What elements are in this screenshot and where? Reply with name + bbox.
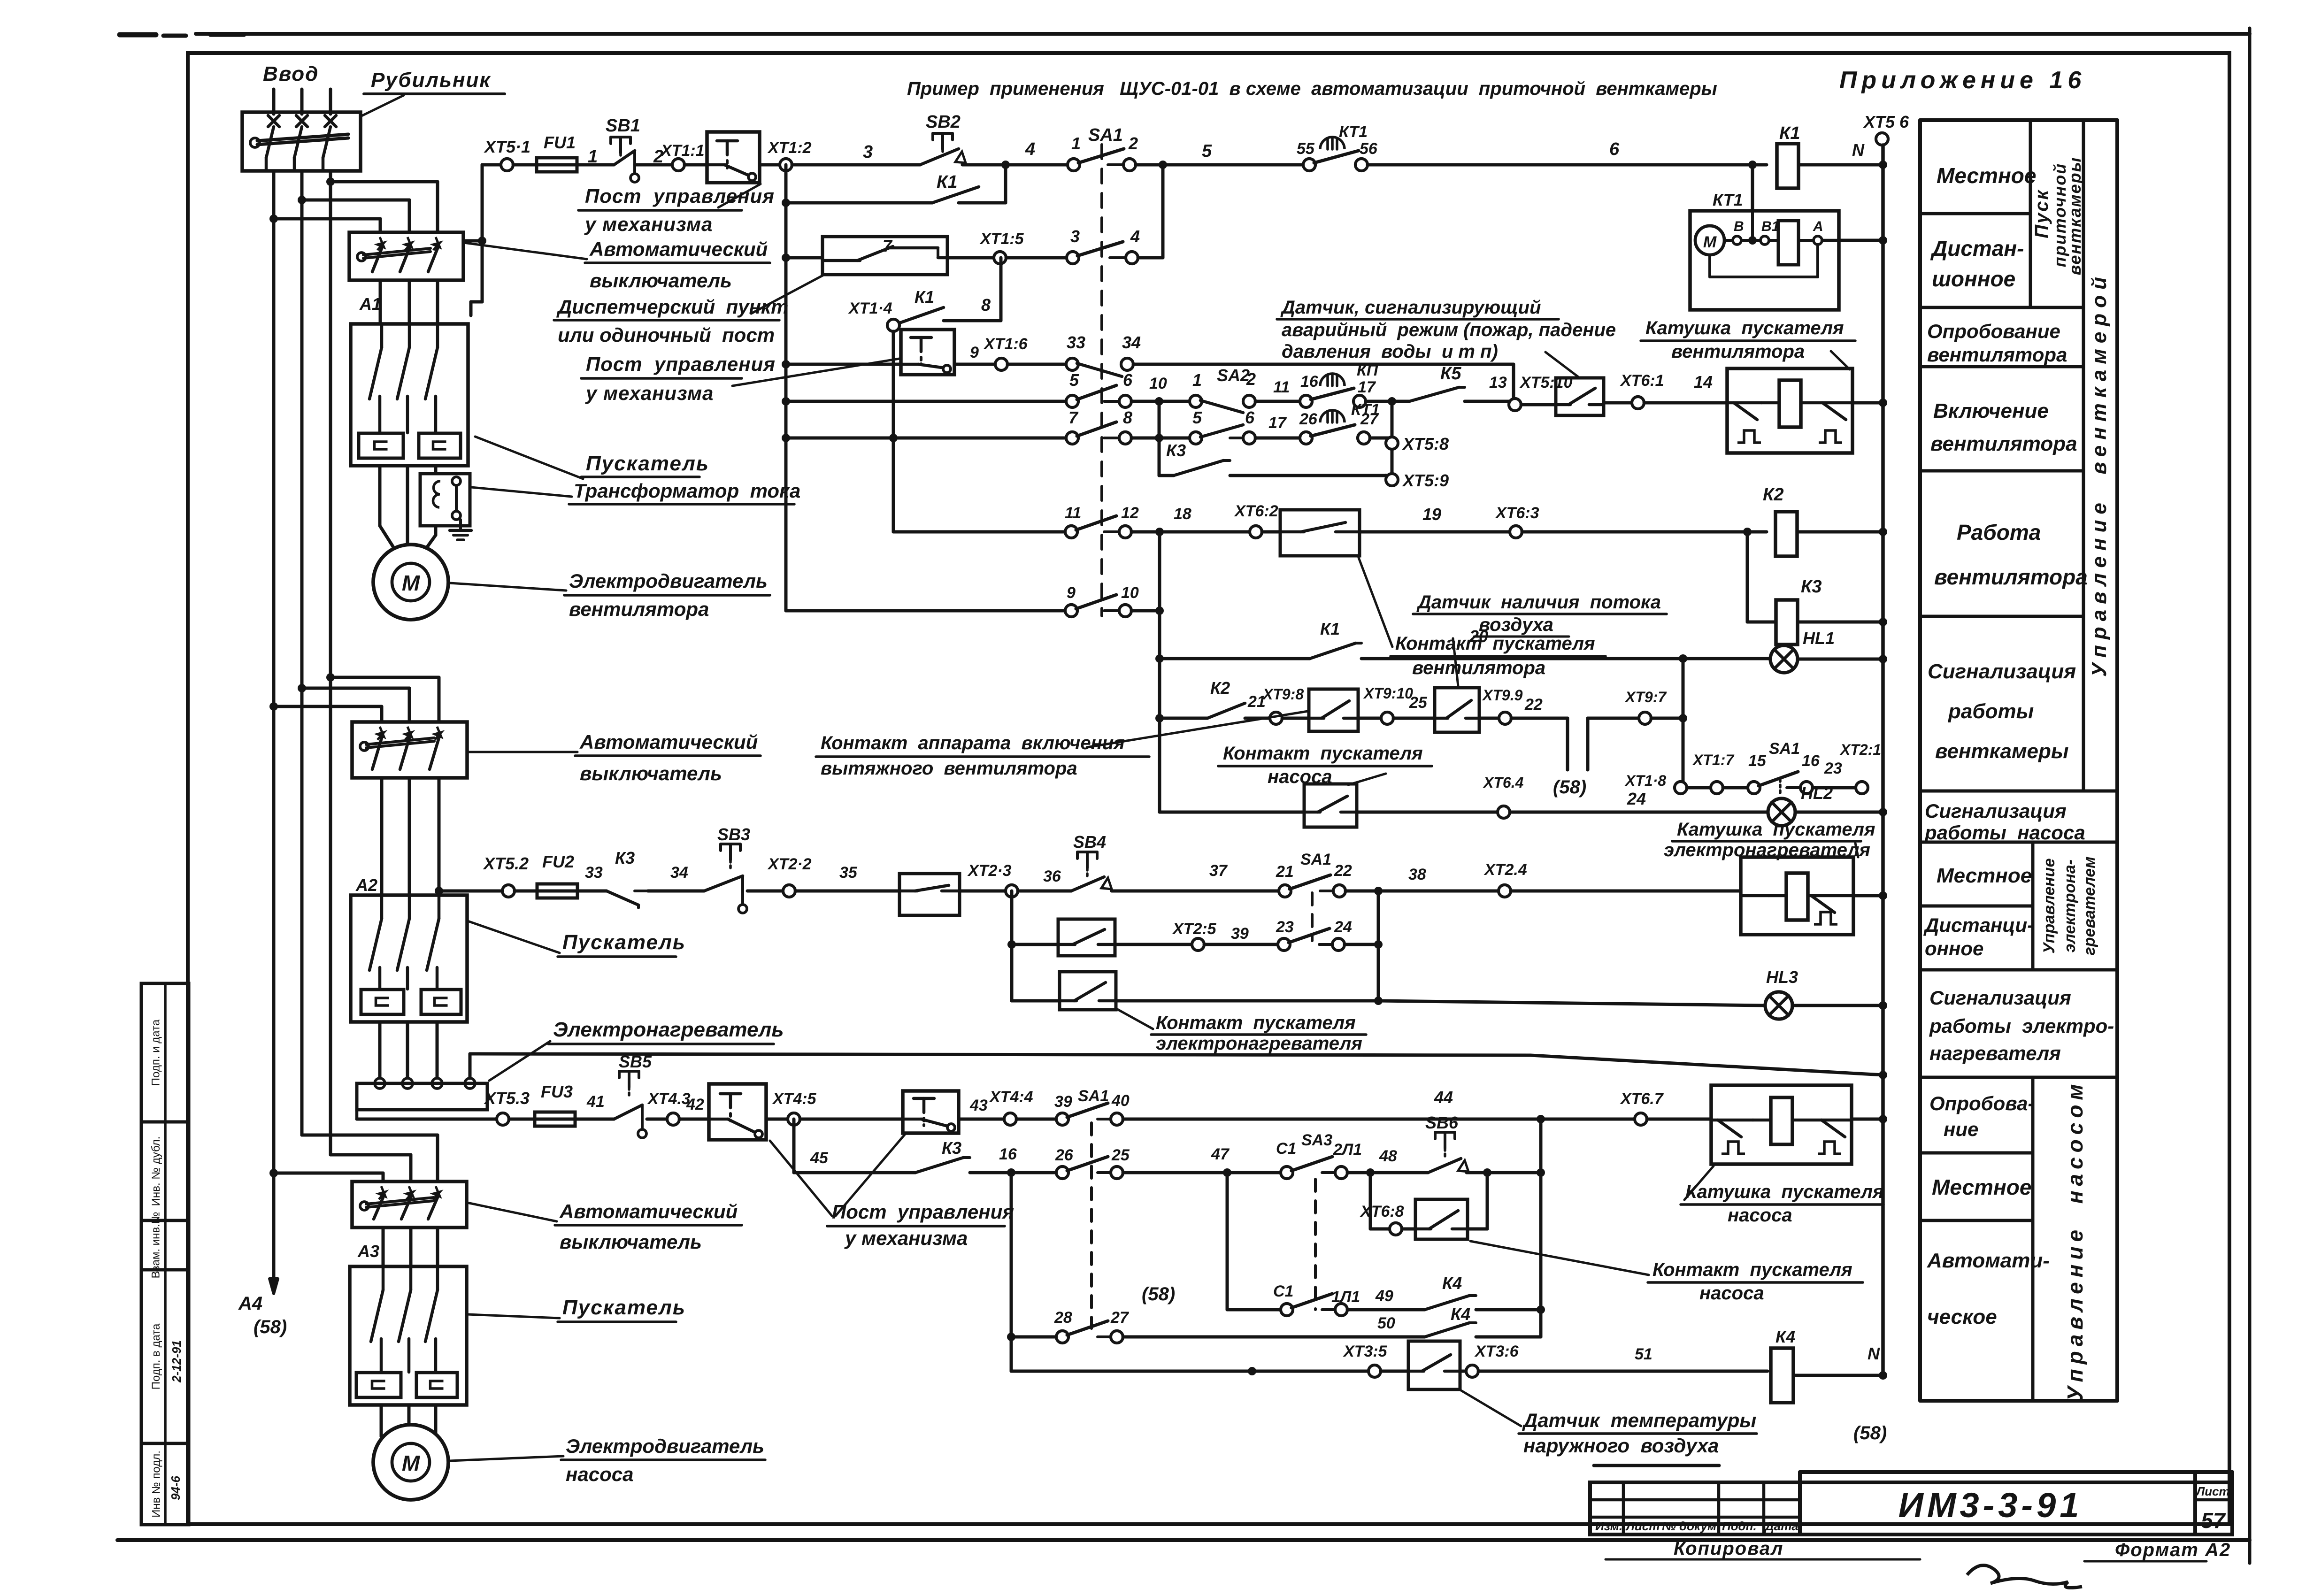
node Ввод label bbox=[263, 62, 319, 85]
svg-text:К2: К2 bbox=[1210, 678, 1230, 698]
svg-text:вентилятора: вентилятора bbox=[1412, 658, 1545, 678]
switch SA3 contact C1-2M1 bbox=[1276, 1131, 1362, 1179]
svg-text:Изм.: Изм. bbox=[1595, 1519, 1622, 1533]
contact K1 (row11) bbox=[1310, 619, 1361, 659]
svg-text:вентилятора: вентилятора bbox=[1671, 341, 1805, 362]
relay coil K4 bbox=[1771, 1327, 1795, 1403]
bus pump right bbox=[1537, 1119, 1545, 1337]
svg-text:К2: К2 bbox=[1763, 485, 1784, 505]
wire 3a bbox=[786, 256, 822, 260]
svg-text:Включение: Включение bbox=[1933, 399, 2049, 422]
svg-text:47: 47 bbox=[1211, 1145, 1230, 1163]
label Датчик наличия потока bbox=[1413, 592, 1667, 686]
svg-text:55: 55 bbox=[1297, 140, 1315, 158]
svg-text:4: 4 bbox=[1025, 139, 1035, 159]
svg-text:34: 34 bbox=[1122, 333, 1141, 352]
svg-text:16: 16 bbox=[1300, 373, 1319, 391]
lamp HL2 bbox=[1768, 783, 1833, 826]
svg-text:XT9:10: XT9:10 bbox=[1363, 685, 1413, 702]
svg-text:Приложение 16: Приложение 16 bbox=[1839, 67, 2086, 94]
cell Сигнализация работы венткамеры bbox=[1928, 660, 2076, 763]
wire 21a bbox=[1011, 1335, 1056, 1339]
cell Автоматическое bbox=[1927, 1249, 2050, 1328]
cell Опробование (насос) bbox=[1929, 1092, 2034, 1140]
label Электродвигатель насоса bbox=[561, 1435, 765, 1485]
contact K4 (row20) bbox=[1425, 1274, 1476, 1310]
wire 6c bbox=[1255, 378, 1300, 401]
cell Управление насосом bbox=[2063, 1080, 2087, 1401]
wire 11c bbox=[1798, 655, 1887, 663]
svg-text:КП: КП bbox=[1357, 361, 1379, 379]
svg-text:К3: К3 bbox=[615, 848, 635, 867]
terminal XT5:1 bbox=[484, 137, 530, 171]
svg-text:Пуск: Пуск bbox=[2031, 189, 2052, 238]
wire 18g bbox=[959, 1097, 1004, 1119]
svg-text:19: 19 bbox=[1422, 505, 1441, 524]
svg-text:К1: К1 bbox=[1320, 619, 1340, 638]
terminal XT9:7 bbox=[1624, 689, 1667, 724]
svg-text:5: 5 bbox=[1202, 141, 1212, 161]
wire 22a bbox=[1011, 1367, 1368, 1375]
svg-text:Катушка пускателя: Катушка пускателя bbox=[1645, 318, 1844, 338]
svg-text:М: М bbox=[1703, 233, 1717, 251]
svg-text:XT2·2: XT2·2 bbox=[767, 855, 812, 873]
wire (58) stub down bbox=[1566, 718, 1569, 770]
control post box T2 bbox=[901, 330, 954, 375]
leader 10 bbox=[489, 1041, 550, 1081]
svg-text:XT9.9: XT9.9 bbox=[1482, 687, 1523, 704]
wire 18d bbox=[679, 1096, 709, 1119]
document stamp column bbox=[141, 983, 189, 1525]
leader 3 bbox=[751, 275, 823, 314]
title block bbox=[1590, 1466, 2232, 1535]
contact 26-25 (SA1) bbox=[1055, 1146, 1130, 1179]
switch SA1 dashed link bbox=[1100, 145, 1103, 616]
svg-text:SB5: SB5 bbox=[619, 1052, 652, 1071]
svg-text:Сигнализация: Сигнализация bbox=[1928, 660, 2076, 683]
svg-text:50: 50 bbox=[1377, 1314, 1395, 1332]
wire 3c bbox=[1006, 256, 1067, 260]
wire tap A2 pole1 bbox=[269, 702, 382, 722]
svg-text:57: 57 bbox=[2201, 1508, 2226, 1533]
wire 13b bbox=[1723, 786, 1748, 790]
wire A3-KM3 pole2 bbox=[409, 1228, 413, 1266]
terminal XT4:5 bbox=[772, 1090, 817, 1125]
svg-text:XT9:7: XT9:7 bbox=[1624, 689, 1667, 706]
svg-text:44: 44 bbox=[1434, 1088, 1453, 1107]
motor M2 (насос) bbox=[373, 1425, 448, 1500]
svg-text:39: 39 bbox=[1054, 1093, 1072, 1111]
svg-text:Дистанци-: Дистанци- bbox=[1923, 914, 2034, 936]
svg-text:3: 3 bbox=[863, 142, 873, 162]
svg-text:22: 22 bbox=[1524, 696, 1543, 714]
svg-text:24: 24 bbox=[1334, 918, 1352, 936]
wire 18i bbox=[1123, 1088, 1635, 1123]
wire K1 bypass bbox=[786, 165, 1006, 203]
svg-text:34: 34 bbox=[670, 864, 688, 882]
label Контакт пускателя вентилятора bbox=[1359, 558, 1606, 678]
wire 9a bbox=[893, 530, 1065, 534]
contact 23-24 (SA1) bbox=[1276, 918, 1352, 951]
cell Местное (вентилятор) bbox=[1937, 163, 2036, 188]
svg-text:HL2: HL2 bbox=[1801, 783, 1833, 803]
contact K3 (row19) bbox=[915, 1138, 970, 1173]
svg-text:ние: ние bbox=[1944, 1118, 1978, 1140]
sheet label bbox=[2195, 1484, 2229, 1533]
title block headers bbox=[1595, 1519, 1798, 1533]
svg-text:SB6: SB6 bbox=[1425, 1113, 1459, 1132]
leader 12 bbox=[467, 1314, 560, 1318]
document number ИМ3-3-91 bbox=[1898, 1486, 2083, 1525]
wire A3-KM3 pole3 bbox=[436, 1228, 439, 1266]
svg-text:у механизма: у механизма bbox=[844, 1227, 968, 1249]
time contact KT1 26-27 bbox=[1299, 401, 1380, 444]
svg-text:11: 11 bbox=[1273, 378, 1290, 396]
terminal XT5:9 bbox=[1386, 471, 1449, 490]
wire tap A1 pole3 bbox=[326, 177, 438, 232]
pushbutton SB6 bbox=[1425, 1113, 1468, 1173]
wire 12a bbox=[1160, 717, 1207, 720]
contact K5 bbox=[1409, 364, 1465, 401]
switch SA3 contact C1-1M1 bbox=[1273, 1282, 1360, 1316]
control post box T3 bbox=[709, 1084, 766, 1140]
electric heater box bbox=[357, 1083, 487, 1110]
svg-text:SB3: SB3 bbox=[717, 825, 750, 844]
label Датчик сигнализирующий bbox=[1277, 297, 1616, 362]
wire 8b bbox=[1230, 475, 1386, 476]
svg-text:41: 41 bbox=[586, 1093, 605, 1111]
terminal XT9:8 bbox=[1262, 686, 1304, 724]
svg-text:насоса: насоса bbox=[566, 1463, 633, 1485]
wire 1i bbox=[1368, 139, 1767, 169]
terminal XT6:4 bbox=[1483, 774, 1524, 818]
terminal XT6:7 bbox=[1620, 1090, 1664, 1125]
terminal XT1:4 bbox=[848, 299, 899, 331]
svg-text:14: 14 bbox=[1694, 372, 1713, 391]
svg-text:XT4.3: XT4.3 bbox=[647, 1090, 691, 1108]
svg-text:21: 21 bbox=[1276, 863, 1294, 881]
wire 5d bbox=[1133, 364, 1514, 397]
label A4 bbox=[238, 1293, 262, 1314]
wire 12e bbox=[1393, 694, 1435, 718]
bus HL down bbox=[1679, 659, 1687, 788]
svg-text:16: 16 bbox=[1802, 752, 1820, 770]
svg-text:Трансформатор тока: Трансформатор тока bbox=[574, 480, 800, 502]
wire 18c bbox=[647, 1118, 667, 1121]
svg-text:XT5:8: XT5:8 bbox=[1402, 434, 1449, 453]
svg-text:Местное: Местное bbox=[1932, 1175, 2031, 1199]
svg-text:Местное: Местное bbox=[1937, 163, 2036, 188]
svg-text:13: 13 bbox=[1489, 374, 1507, 391]
svg-text:Катушка пускателя: Катушка пускателя bbox=[1677, 819, 1875, 840]
cell Дистанционное (нагреватель) bbox=[1923, 914, 2034, 959]
contact K1 (row4) bbox=[899, 287, 944, 323]
switch SA1 contact 39-40 bbox=[1054, 1087, 1130, 1125]
svg-text:нагревателя: нагревателя bbox=[1929, 1042, 2061, 1064]
svg-text:№ докум.: № докум. bbox=[1662, 1519, 1720, 1533]
switch SA1 dashed link 3 bbox=[1090, 1123, 1093, 1328]
wire 18f bbox=[800, 1118, 903, 1121]
wire 15j bbox=[1345, 866, 1499, 895]
torn page edge dashes top left bbox=[120, 35, 244, 36]
cell Пуск приточной венткамеры bbox=[2031, 157, 2084, 276]
lamp HL3 bbox=[1765, 967, 1798, 1019]
wire tap A2 pole2 bbox=[298, 684, 409, 722]
svg-text:КТ1: КТ1 bbox=[1713, 190, 1743, 209]
pushbutton SB2 bbox=[920, 112, 966, 165]
heater aux contact box (row16) bbox=[1058, 919, 1115, 956]
cell Местное (насос) bbox=[1932, 1175, 2031, 1199]
label (58) mid bbox=[1553, 777, 1586, 798]
wire A1-KM1 pole1 bbox=[379, 280, 382, 324]
pushbutton SB4 bbox=[1071, 832, 1112, 891]
svg-text:1: 1 bbox=[588, 147, 598, 167]
wire 8a bbox=[1159, 401, 1174, 476]
label Электронагреватель bbox=[548, 1018, 784, 1044]
svg-text:Пускатель: Пускатель bbox=[562, 1296, 686, 1319]
label Пускатель 2 bbox=[558, 931, 686, 957]
svg-text:XT4:4: XT4:4 bbox=[989, 1088, 1033, 1106]
svg-text:К1: К1 bbox=[937, 172, 958, 192]
wire 9d bbox=[1360, 505, 1510, 532]
svg-text:К3: К3 bbox=[1801, 577, 1822, 597]
svg-text:А2: А2 bbox=[355, 875, 377, 895]
svg-text:51: 51 bbox=[1635, 1345, 1652, 1363]
svg-text:SA3: SA3 bbox=[1301, 1131, 1332, 1149]
wire 9f bbox=[1797, 528, 1887, 536]
svg-text:вытяжного вентилятора: вытяжного вентилятора bbox=[821, 758, 1077, 779]
svg-text:XT5.2: XT5.2 bbox=[483, 854, 529, 873]
svg-text:XT3:6: XT3:6 bbox=[1474, 1343, 1519, 1360]
flow sensor contact box (row12) bbox=[1435, 688, 1479, 732]
svg-text:Контакт пускателя: Контакт пускателя bbox=[1156, 1013, 1356, 1033]
svg-text:23: 23 bbox=[1276, 918, 1294, 936]
wire 17c bbox=[1378, 1001, 1765, 1005]
svg-text:Ввод: Ввод bbox=[263, 62, 319, 85]
terminal XT6:3 bbox=[1495, 504, 1539, 538]
wire 18e bbox=[766, 1118, 788, 1121]
label Катушка пускателя насоса bbox=[1681, 1166, 1884, 1226]
cell Работа вентилятора bbox=[1934, 520, 2088, 589]
contact 9-10 (SA1) bbox=[1065, 584, 1139, 617]
svg-text:(58): (58) bbox=[1553, 777, 1586, 798]
terminal XT5:8 bbox=[1386, 434, 1449, 453]
svg-text:Подп. в дата: Подп. в дата bbox=[150, 1323, 162, 1389]
wire 19f bbox=[1402, 1228, 1415, 1231]
svg-text:15: 15 bbox=[1748, 752, 1767, 770]
annex label bbox=[1839, 67, 2086, 94]
svg-text:Инв. № дубл.: Инв. № дубл. bbox=[150, 1136, 162, 1206]
svg-text:К1: К1 bbox=[915, 287, 934, 307]
terminal XT1:6 bbox=[983, 335, 1028, 370]
svg-text:XT2·3: XT2·3 bbox=[967, 862, 1012, 880]
wire 15d bbox=[648, 864, 704, 891]
svg-text:Пост управления: Пост управления bbox=[586, 353, 776, 375]
wire KM2 out2 bbox=[406, 1022, 409, 1077]
svg-text:Лист: Лист bbox=[1625, 1519, 1660, 1533]
svg-text:Формат А2: Формат А2 bbox=[2115, 1540, 2231, 1560]
svg-text:25: 25 bbox=[1111, 1146, 1130, 1164]
format label bbox=[2084, 1540, 2231, 1561]
svg-text:выключатель: выключатель bbox=[590, 269, 732, 292]
svg-text:39: 39 bbox=[1231, 925, 1249, 943]
svg-text:М: М bbox=[402, 1451, 421, 1475]
wire 18k bbox=[1852, 1115, 1887, 1123]
motor M1 (вентилятор) bbox=[373, 545, 448, 620]
feeder A4 to sheet 58 bbox=[269, 1173, 278, 1294]
svg-text:или одиночный пост: или одиночный пост bbox=[558, 324, 775, 346]
svg-text:4: 4 bbox=[1130, 227, 1140, 246]
svg-text:В: В bbox=[1734, 219, 1744, 234]
wire 12g bbox=[1511, 696, 1568, 718]
svg-text:FU1: FU1 bbox=[544, 133, 576, 152]
wire tap A3 pole3 bbox=[302, 1135, 438, 1182]
wire 3b bbox=[947, 256, 994, 260]
wire 22e bbox=[1793, 1344, 1887, 1380]
sensor contact box (avar) bbox=[1556, 378, 1604, 415]
terminal XT2:5 bbox=[1172, 920, 1217, 951]
wire 17b bbox=[1116, 999, 1378, 1003]
pushbutton SB1 bbox=[606, 116, 640, 182]
contact 11-12 (SA1) bbox=[1065, 504, 1139, 538]
drawing outer border right bbox=[2248, 28, 2252, 1563]
svg-text:Датчик температуры: Датчик температуры bbox=[1522, 1409, 1756, 1431]
contact K2 (row12) bbox=[1207, 678, 1245, 718]
svg-text:Опробование: Опробование bbox=[1927, 320, 2060, 342]
svg-text:Контакт пускателя: Контакт пускателя bbox=[1395, 633, 1595, 654]
svg-text:1Л1: 1Л1 bbox=[1331, 1288, 1360, 1306]
wire 6d bbox=[1366, 397, 1409, 406]
contact 15-16 (SA1) bbox=[1748, 740, 1820, 795]
svg-text:43: 43 bbox=[969, 1097, 988, 1114]
svg-text:насоса: насоса bbox=[1728, 1205, 1792, 1226]
svg-text:FU2: FU2 bbox=[542, 852, 574, 871]
svg-text:2-12-91: 2-12-91 bbox=[169, 1340, 184, 1383]
svg-text:XT5:9: XT5:9 bbox=[1402, 471, 1449, 490]
svg-text:49: 49 bbox=[1375, 1287, 1393, 1305]
svg-text:12: 12 bbox=[1121, 504, 1139, 522]
label Пускатель 3 bbox=[558, 1296, 686, 1322]
wire 16c bbox=[1204, 925, 1278, 944]
contact 7-8 (SA1) bbox=[1066, 408, 1132, 444]
svg-text:Катушка пускателя: Катушка пускателя bbox=[1685, 1182, 1884, 1202]
svg-text:К3: К3 bbox=[1166, 441, 1186, 460]
svg-text:К5: К5 bbox=[1440, 364, 1461, 384]
label Трансформатор тока bbox=[569, 480, 800, 504]
wire 15e bbox=[747, 890, 783, 893]
drawing outer border top bbox=[196, 32, 2250, 36]
svg-text:SA1: SA1 bbox=[1769, 740, 1800, 758]
label Пост управления у механизма 3 bbox=[827, 1201, 1014, 1249]
contact K4 (row21) bbox=[1425, 1304, 1476, 1337]
svg-text:выключатель: выключатель bbox=[580, 762, 722, 784]
leader 5 bbox=[475, 437, 583, 479]
wire 19a bbox=[970, 1145, 1056, 1177]
svg-text:24: 24 bbox=[1627, 789, 1646, 808]
svg-text:Лист: Лист bbox=[2195, 1484, 2229, 1498]
wire 15i bbox=[1112, 862, 1279, 891]
svg-text:2Л1: 2Л1 bbox=[1333, 1141, 1362, 1159]
wire 13a bbox=[1687, 786, 1711, 790]
svg-text:SB1: SB1 bbox=[606, 116, 640, 136]
contact 5-6 (SA1) bbox=[1066, 370, 1133, 407]
wire KM2 out1 bbox=[378, 1022, 382, 1077]
svg-text:7: 7 bbox=[1068, 408, 1079, 427]
wire 14d bbox=[1795, 808, 1887, 816]
wire 6i bbox=[1852, 399, 1887, 407]
wire 16a bbox=[1012, 943, 1058, 946]
svg-text:насоса: насоса bbox=[1268, 767, 1332, 787]
wire 5c bbox=[1007, 363, 1066, 366]
wire (58) stub up bbox=[1588, 718, 1639, 770]
wire 1e bbox=[760, 163, 780, 167]
svg-text:Копировал: Копировал bbox=[1674, 1538, 1783, 1559]
wire 1g bbox=[962, 139, 1068, 169]
svg-text:Контакт пускателя: Контакт пускателя bbox=[1652, 1259, 1852, 1280]
svg-text:33: 33 bbox=[1067, 333, 1085, 352]
svg-text:(58): (58) bbox=[1853, 1423, 1887, 1443]
svg-text:7: 7 bbox=[883, 236, 893, 255]
phase wire L3 top bbox=[329, 89, 332, 114]
wire A2-KM2 pole3 bbox=[435, 778, 443, 895]
wire K3-N bbox=[1798, 618, 1887, 626]
svg-text:6: 6 bbox=[1245, 408, 1255, 427]
svg-text:22: 22 bbox=[1334, 862, 1352, 880]
label (58) left bbox=[254, 1317, 287, 1337]
svg-text:17: 17 bbox=[1358, 378, 1376, 396]
relay coil K2 bbox=[1763, 485, 1797, 556]
contact 33-34 (SA1) bbox=[1066, 333, 1141, 376]
leader 8 bbox=[468, 751, 577, 753]
label Автоматический выключатель 3 bbox=[555, 1200, 742, 1253]
wire 6f bbox=[1521, 403, 1556, 407]
switch SA2 contact 1-2 bbox=[1190, 366, 1256, 413]
bus pump left bbox=[1007, 1173, 1015, 1371]
wire 15f bbox=[795, 864, 899, 891]
wire 6b bbox=[1131, 375, 1190, 406]
svg-text:18: 18 bbox=[1174, 505, 1191, 523]
svg-text:Управление венткамерой: Управление венткамерой bbox=[2088, 271, 2111, 677]
pushbutton SB5 bbox=[614, 1052, 652, 1138]
wire 9e bbox=[1522, 528, 1767, 536]
wire 14b bbox=[1357, 811, 1498, 814]
svg-text:16: 16 bbox=[999, 1145, 1017, 1163]
leader 2 bbox=[464, 243, 587, 259]
signature bbox=[1967, 1565, 2082, 1588]
label Рубильник bbox=[364, 69, 505, 94]
temperature sensor contact box bbox=[1408, 1341, 1460, 1389]
svg-text:HL3: HL3 bbox=[1766, 967, 1798, 987]
wire KM1-M1 pole1 bbox=[380, 466, 395, 550]
wire 45 link bbox=[794, 1119, 915, 1173]
control post box T1 bbox=[707, 132, 760, 183]
svg-text:С1: С1 bbox=[1273, 1282, 1293, 1300]
bus N bbox=[1881, 145, 1885, 1377]
terminal XT5:6 bbox=[1863, 112, 1909, 145]
leader 7 bbox=[450, 583, 566, 591]
fan aux contact box (row9) bbox=[1280, 510, 1360, 556]
svg-text:SB4: SB4 bbox=[1073, 832, 1106, 852]
svg-text:вентилятора: вентилятора bbox=[1927, 344, 2067, 366]
leader post3 a bbox=[770, 1141, 832, 1216]
pump aux contact box (row12) bbox=[1309, 689, 1358, 731]
bus 47 down bbox=[1226, 1173, 1229, 1310]
contact 28-27 (SA1) bbox=[1054, 1309, 1130, 1343]
wire 5a bbox=[786, 363, 901, 366]
svg-text:шонное: шонное bbox=[1932, 267, 2015, 291]
pump aux contact box (XT6:8) bbox=[1415, 1199, 1468, 1239]
title text bbox=[907, 78, 1717, 99]
